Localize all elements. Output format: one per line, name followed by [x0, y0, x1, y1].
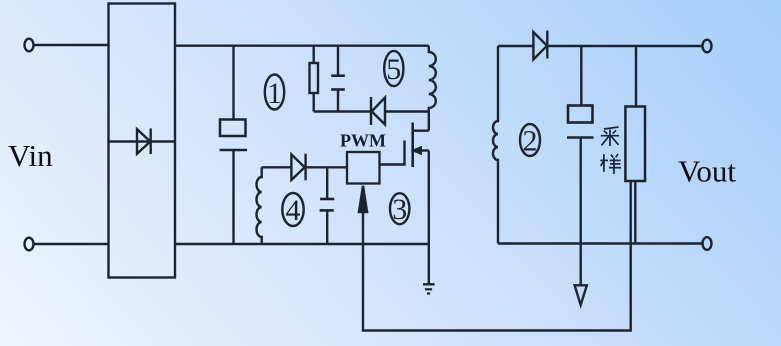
- node circled 3: [390, 193, 409, 226]
- inductor L2 (secondary): [493, 46, 498, 244]
- wire bottom rail: [175, 243, 429, 245]
- inductor L4 (aux winding): [257, 167, 262, 244]
- node circled 1: [265, 75, 284, 111]
- terminal output bottom: [703, 237, 712, 250]
- node circled 2: [520, 124, 540, 158]
- transistor Q1 (MOSFET): [380, 112, 429, 245]
- node circled 5: [384, 51, 403, 86]
- capacitor C2 (clamp): [331, 46, 345, 112]
- svg-text:Vout: Vout: [678, 153, 736, 188]
- wire diode to PWM: [306, 166, 347, 168]
- bridge rectifier box: [109, 4, 176, 278]
- diode D3 (aux, points right): [291, 154, 305, 181]
- wire input bottom: [34, 243, 109, 245]
- label caiyang (sampling): [600, 127, 621, 174]
- terminal input top: [25, 39, 34, 52]
- feedback arrow into PWM: [359, 186, 367, 212]
- wire output top rail: [547, 45, 703, 47]
- resistor R1 (clamp): [310, 46, 319, 112]
- svg-text:PWM: PWM: [340, 131, 386, 151]
- wire clamp node: [314, 110, 371, 112]
- ground: [423, 244, 435, 294]
- capacitor C4 (output electrolytic): [567, 46, 594, 285]
- svg-text:3: 3: [392, 193, 407, 226]
- diode D1 (inside bridge): [137, 129, 151, 155]
- wire input top: [34, 44, 109, 46]
- resistor R2 (sampling): [625, 46, 645, 244]
- diode D2 (clamp, points left): [371, 97, 385, 125]
- wire feedback: [363, 181, 631, 331]
- wire bridge internal: [109, 140, 176, 142]
- svg-text:Vin: Vin: [8, 138, 53, 173]
- node circled 4: [282, 193, 303, 227]
- char cai: [601, 127, 619, 146]
- terminal output top: [703, 40, 712, 53]
- arrow output reference: [575, 285, 587, 305]
- svg-text:4: 4: [286, 194, 301, 227]
- wire aux to diode: [262, 166, 292, 168]
- capacitor C3 (aux): [320, 167, 335, 244]
- svg-text:5: 5: [386, 53, 401, 86]
- char yang: [600, 154, 621, 174]
- wire clamp to primary: [385, 110, 429, 112]
- diode D4 (output rectifier): [533, 31, 547, 60]
- wire output bottom rail: [498, 242, 703, 244]
- svg-text:2: 2: [523, 125, 538, 158]
- svg-text:1: 1: [267, 77, 282, 110]
- wire secondary top: [498, 45, 533, 47]
- PWM controller U1: [340, 131, 386, 184]
- wire top rail: [175, 45, 429, 47]
- inductor L5 (transformer primary): [429, 46, 436, 112]
- capacitor C1 (input electrolytic): [220, 46, 248, 244]
- terminal input bottom: [25, 238, 34, 251]
